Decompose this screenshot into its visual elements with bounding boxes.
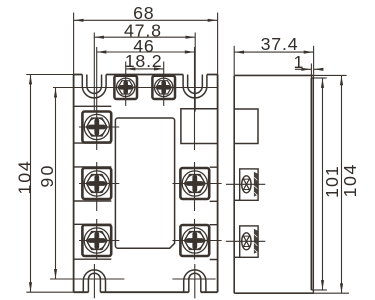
svg-text:104: 104 (15, 159, 35, 194)
svg-text:1: 1 (294, 52, 305, 72)
svg-text:18.2: 18.2 (125, 51, 163, 71)
svg-text:104: 104 (340, 163, 360, 197)
svg-text:37.4: 37.4 (261, 34, 299, 54)
svg-text:101: 101 (322, 165, 342, 198)
svg-text:90: 90 (37, 163, 57, 187)
